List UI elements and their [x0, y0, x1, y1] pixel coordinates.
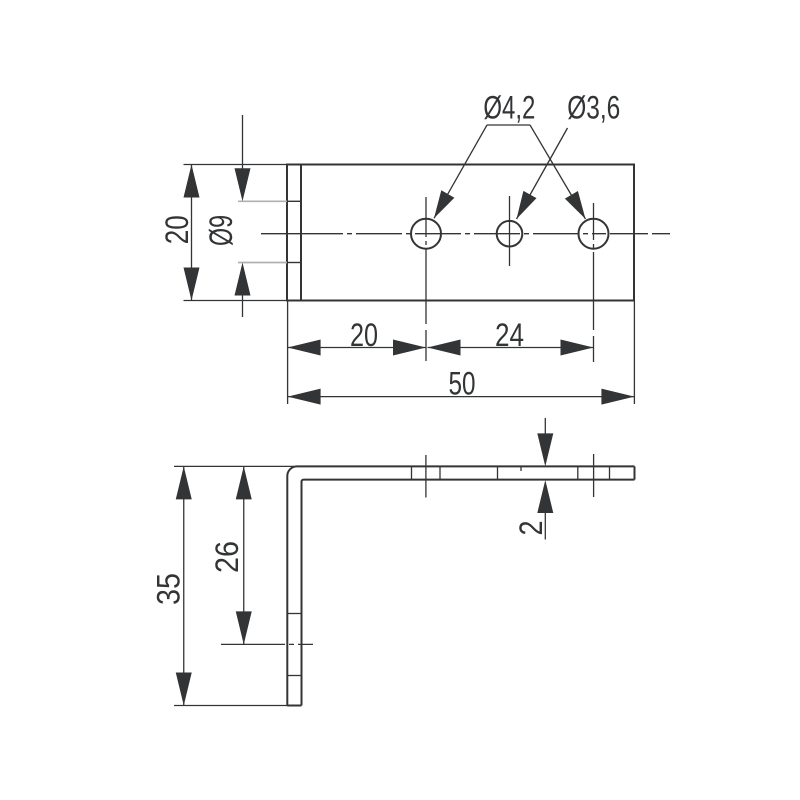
extension line: left edge below plate — [287, 301, 289, 405]
side view hole H3 right edge — [609, 466, 611, 479]
top view: plate outline — [287, 165, 634, 301]
hole H3 Ø4.2 — [579, 219, 609, 249]
side view hole H1 center tick — [425, 455, 427, 498]
arrow: Ø9 lower (up) — [235, 263, 251, 296]
svg-text:Ø9: Ø9 — [203, 215, 239, 246]
side view: outer contour of angle — [287, 466, 634, 705]
svg-text:2: 2 — [513, 521, 549, 536]
arrow: dim35 bottom (down) — [176, 673, 192, 706]
side view Ø9 hole lower edge — [287, 675, 301, 677]
leader Ø4,2: line to hole H3 — [530, 125, 586, 219]
extension line: side view top — [174, 465, 296, 467]
arrow: Ø9 upper (down) — [235, 168, 251, 201]
dimension Ø9: upper leader line — [242, 115, 244, 175]
arrow: dim26 bottom (down) — [236, 611, 252, 644]
extension line: side view bottom — [174, 705, 301, 707]
side view hole H3 center tick — [593, 454, 595, 497]
vertical centerline hole H3 — [593, 203, 595, 362]
dimension 50: dimension line — [288, 396, 635, 398]
hidden line: Ø9 hole upper edge (side projection) — [238, 200, 287, 202]
side view hole H1 right edge — [439, 466, 441, 479]
hidden line: Ø9 hole lower edge (side projection) — [238, 262, 287, 264]
arrow: dim20 top (up) — [184, 165, 200, 198]
arrow: dim35 top (up) — [176, 466, 192, 499]
side view hole H2 right edge stub — [520, 466, 522, 471]
arrow: dim2 upper (down) — [537, 433, 553, 466]
Ø9 hole upper edge in leg section — [287, 200, 301, 202]
arrow: leader to H1 — [434, 190, 454, 218]
svg-text:Ø3,6: Ø3,6 — [567, 90, 620, 126]
dimension 2: upper leader — [544, 418, 546, 440]
arrow: dim50 left — [288, 389, 321, 405]
arrow: dim24 right — [561, 340, 594, 356]
arrow: dim20 bottom (down) — [184, 268, 200, 301]
top view: bend line of vertical leg — [300, 165, 302, 301]
horizontal centerline through holes — [261, 233, 670, 235]
svg-text:20: 20 — [350, 317, 378, 353]
vertical centerline hole H1 — [425, 197, 427, 361]
extension line: plate top edge left — [184, 164, 288, 166]
dimension 2: lower leader — [544, 506, 546, 540]
leader Ø3,6: line to hole H2 — [517, 128, 568, 219]
dimension 24: dimension line — [428, 347, 594, 349]
arrow: dim24 left — [428, 340, 461, 356]
side view hole H1 left edge — [411, 466, 413, 479]
side view Ø9 hole centerline — [221, 643, 313, 645]
arrow: leader to H3 — [565, 191, 586, 219]
side view hole H3 left edge — [577, 466, 579, 479]
hole H2 Ø3.6 — [497, 221, 523, 247]
svg-text:26: 26 — [209, 541, 245, 573]
side view hole H2 left edge — [497, 466, 499, 479]
side view: right end cap — [634, 466, 636, 479]
leader Ø4,2: line to hole H1 — [434, 125, 487, 218]
svg-text:20: 20 — [159, 215, 195, 244]
extension line: right edge below plate — [633, 301, 635, 405]
arrow: dim26 top (up) — [236, 466, 252, 499]
svg-text:50: 50 — [449, 366, 476, 402]
hole H1 Ø4.2 — [411, 219, 441, 249]
dimension 20 (hole spacing): dimension line — [288, 347, 426, 349]
svg-text:Ø4,2: Ø4,2 — [483, 90, 535, 126]
arrow: leader to H2 — [517, 191, 537, 219]
vertical centerline hole H2 — [509, 196, 511, 266]
arrow: dim20 spacing right — [393, 340, 426, 356]
side view: bottom end cap — [287, 705, 301, 707]
extension line: plate bottom edge left — [184, 300, 288, 302]
side view: inner contour of angle — [302, 480, 635, 706]
dimension Ø9: lower leader line — [242, 290, 244, 317]
Ø9 hole lower edge in leg section — [287, 262, 301, 264]
svg-text:24: 24 — [495, 317, 524, 353]
svg-text:35: 35 — [151, 573, 187, 605]
arrow: dim50 right — [601, 389, 634, 405]
arrow: dim2 lower (up) — [537, 480, 553, 513]
arrow: dim20 spacing left — [288, 340, 321, 356]
dimension 26: dimension line — [243, 466, 245, 644]
dimension 20 (top view height): dimension line — [191, 165, 193, 301]
side view Ø9 hole upper edge — [287, 613, 301, 615]
dimension 35: dimension line — [183, 466, 185, 705]
leader Ø4,2: horizontal bar — [487, 124, 530, 126]
